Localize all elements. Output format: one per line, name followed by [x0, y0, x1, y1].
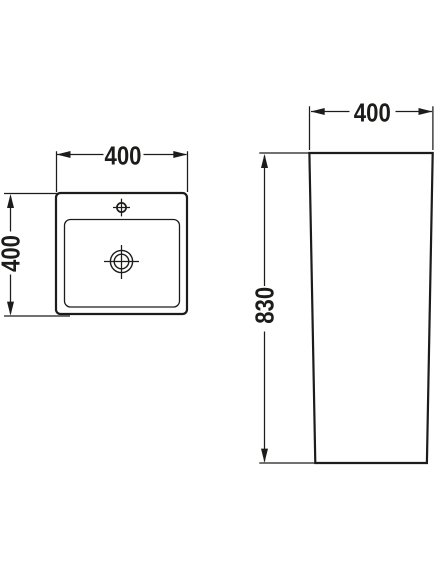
dim top-left 400: extension lines [57, 151, 188, 192]
dim right 830: dimension line [264, 156, 266, 462]
dim top-left 400: left arrow [57, 151, 71, 158]
svg-text:400: 400 [0, 235, 26, 272]
dim top-right 400: dimension line [311, 111, 432, 113]
dim right 830: up arrow [261, 154, 268, 168]
dim left 400: extension lines [4, 194, 70, 317]
svg-text:400: 400 [105, 141, 142, 171]
dim left 400: down arrow [7, 302, 14, 316]
basin outer rim (plan view) [56, 193, 187, 314]
pedestal basin outline (front view) [309, 153, 432, 463]
faucet hole crosshair [113, 199, 130, 217]
dim top-left 400: right arrow [173, 151, 187, 158]
drain inner circle [114, 254, 129, 269]
dim top-right 400: extension lines [310, 106, 433, 150]
dim left 400: up arrow [7, 194, 14, 208]
drain crosshair [104, 245, 139, 279]
svg-text:400: 400 [354, 98, 391, 128]
dim left 400: dimension line [10, 197, 12, 314]
faucet hole circle [117, 203, 126, 212]
dim top-right 400: right arrow [419, 108, 433, 115]
dim top-right 400: left arrow [311, 108, 325, 115]
drain outer circle [110, 250, 132, 272]
basin inner bowl [65, 220, 180, 308]
dim right 830: down arrow [261, 449, 268, 463]
dim right 830: extension lines [259, 153, 314, 463]
svg-text:830: 830 [249, 287, 279, 324]
dim top-left 400: dimension line [57, 154, 187, 156]
